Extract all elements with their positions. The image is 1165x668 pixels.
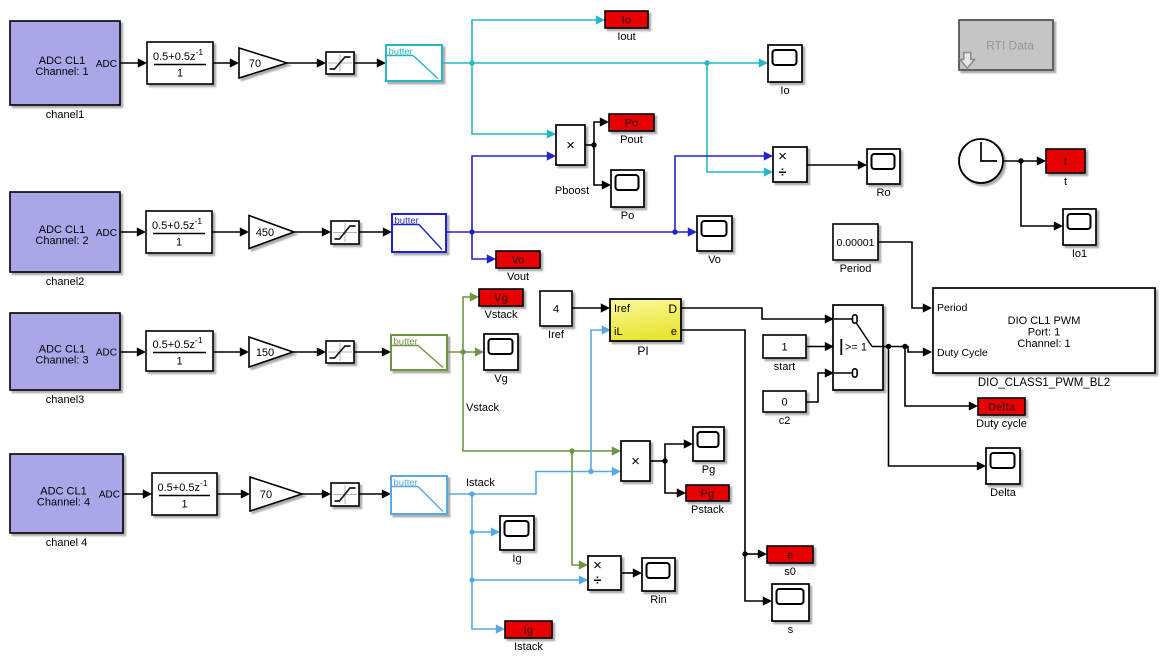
svg-text:chanel 4: chanel 4 [46,537,88,549]
constant Period [833,224,878,275]
svg-text:4: 4 [553,304,559,316]
wire chanel3 to filter3 [120,347,146,356]
svg-text:>= 1: >= 1 [845,342,867,354]
DIO CL1 PWM block [933,288,1155,389]
product block Pg [621,441,650,481]
switch block [833,305,883,390]
svg-text:Port: 1: Port: 1 [1028,327,1060,339]
svg-text:iL: iL [614,326,623,338]
wire Vstack down to Pg product [463,352,621,456]
wire switch out to DIO [883,347,932,357]
gain 150 row3 [249,337,293,367]
svg-text:Period: Period [937,302,968,314]
svg-text:Io1: Io1 [1072,248,1087,260]
svg-text:0: 0 [781,397,787,409]
wire saturation2 to butter2 [359,227,392,236]
wire divide Rin to scope Rin [621,568,642,577]
wire Istack to scope Ig [472,527,500,536]
svg-text:1: 1 [177,68,183,80]
svg-text:Period: Period [840,263,872,275]
svg-text:×: × [566,137,575,154]
wire gain3 to saturation3 [293,347,326,356]
wire Istack up to PI iL [591,325,611,471]
saturation block row2 [331,221,359,244]
svg-text:450: 450 [256,227,274,239]
wire start to switch [806,342,834,351]
svg-text:Vstack: Vstack [466,402,500,414]
svg-text:e: e [671,326,677,338]
wire Pg product out [650,460,665,462]
wire chanel1 to filter1 [120,58,147,67]
node Istack label [466,477,495,489]
svg-text:÷: ÷ [779,164,787,180]
node Pboost label [555,185,589,197]
wire Period to DIO [878,242,932,313]
svg-text:c2: c2 [779,415,791,427]
svg-text:s0: s0 [784,566,796,578]
wire divide Ro to scope Ro [807,160,867,169]
goto tag t [1046,149,1085,188]
svg-text:Istack: Istack [514,641,543,653]
clock block [959,139,1003,183]
svg-text:1: 1 [176,356,182,368]
svg-text:Duty cycle: Duty cycle [976,418,1027,430]
scope s [772,584,809,636]
svg-text:Channel: 2: Channel: 2 [35,235,88,247]
svg-text:Channel: 4: Channel: 4 [37,497,90,509]
ADC input block chanel1 [10,21,120,121]
svg-text:Ig: Ig [524,625,534,637]
wire Pboost to goto Po [594,117,609,145]
wire Pboost to scope Po [594,145,611,190]
junction Io B [704,60,709,65]
wire Vo to divide Ro in1 [675,151,773,232]
wire Io to goto Iout [472,15,605,63]
svg-text:ADC: ADC [99,490,120,501]
goto tag Po [609,114,654,146]
wire Pg to scope Pg [665,439,693,461]
constant c2 [763,391,806,427]
svg-text:Delta: Delta [988,402,1016,414]
wire gain1 to saturation1 [287,58,326,67]
wire gain4 to saturation4 [302,489,331,498]
svg-text:×: × [778,148,787,165]
wire Vstack to divide Rin in1 [572,451,588,570]
svg-text:DIO CL1 PWM: DIO CL1 PWM [1008,315,1081,327]
wire gain2 to saturation2 [294,227,331,236]
svg-text:Pstack: Pstack [691,504,725,516]
butterworth filter block row1 [386,45,442,81]
goto tag Pg [686,485,729,516]
wire switch to scope Delta [889,347,987,471]
wire chanel4 to filter4 [123,489,152,498]
wire Vstack to scope Vg [447,347,484,356]
butterworth filter block row4 [391,476,447,514]
svg-text:Pg: Pg [702,464,715,476]
svg-text:Iref: Iref [548,329,565,341]
scope Vo [697,216,732,266]
product block Pboost [556,125,585,165]
divide block Rin [588,556,621,590]
goto tag Vo [496,251,540,283]
ADC input block chanel3 [10,313,120,406]
wire chanel2 to filter2 [120,227,146,236]
divide block Ro [773,147,807,182]
wire clock to scope Io1 [1021,161,1063,231]
junction Pg out [662,458,667,463]
svg-text:Istack: Istack [466,477,495,489]
constant Iref [540,291,572,341]
ADC input block chanel 4 [10,454,123,549]
wire filter4 to gain4 [217,489,250,498]
svg-text:Po: Po [624,118,638,130]
scope Io [768,45,802,97]
gain 450 row2 [249,216,294,249]
junction Istack B [588,469,593,474]
wire Istack to divide Rin in2 [472,575,588,584]
svg-text:s: s [788,624,794,636]
wire Vo to goto Vout [472,232,496,264]
svg-text:Channel: 1: Channel: 1 [1017,338,1070,350]
scope Po [611,170,644,222]
junction Istack C [469,529,474,534]
svg-text:1: 1 [181,499,187,511]
scope Ig [500,516,534,565]
junction Vo A [469,229,474,234]
wire Istack main [447,467,621,494]
svg-text:Ig: Ig [512,553,521,565]
junction switch B [902,344,907,349]
svg-text:×: × [631,453,640,470]
wire filter1 to gain1 [213,58,239,67]
saturation block row3 [326,341,354,363]
wire filter3 to gain3 [213,347,249,356]
svg-text:Ro: Ro [876,187,890,199]
svg-text:0.00001: 0.00001 [837,237,875,249]
svg-text:Pg: Pg [700,488,714,500]
scope Ro [867,149,900,199]
svg-text:ADC: ADC [96,228,117,239]
svg-text:70: 70 [260,489,272,501]
junction Vo B [672,229,677,234]
svg-text:Vout: Vout [507,271,529,283]
svg-text:Pout: Pout [620,134,643,146]
wire saturation1 to butter1 [354,58,386,67]
junction clock [1018,158,1023,163]
wire Pboost out [585,144,594,146]
junction Vstack B [569,448,574,453]
wire clock to goto t [1003,156,1046,165]
svg-text:1: 1 [781,342,787,354]
junction switch A [886,344,891,349]
svg-text:t: t [1064,156,1068,168]
wire switch to goto Delta [905,347,978,411]
goto tag Ig [505,621,552,653]
svg-text:PI: PI [637,344,648,358]
discrete filter row4 [152,473,217,515]
scope Vg [484,334,518,385]
wire filter2 to gain2 [212,227,249,236]
wire saturation3 to butter3 [354,347,391,356]
RTI Data block [959,20,1053,70]
svg-text:Vo: Vo [708,254,721,266]
svg-text:÷: ÷ [594,572,602,588]
junction Istack D [469,577,474,582]
junction e [742,551,747,556]
wire Iref to PI [572,303,610,312]
saturation block row1 [326,52,354,74]
junction Io A [469,60,474,65]
wire Vo to Pboost in2 [472,151,556,232]
goto tag e [767,546,813,578]
wire saturation4 to butter4 [359,489,391,498]
svg-text:Vo: Vo [511,255,525,267]
wire PI D to switch [681,308,834,324]
svg-text:start: start [774,361,795,373]
wire Io signal main [442,58,768,67]
svg-text:D: D [668,302,677,316]
wire Io to divide Ro in2 [707,63,773,177]
svg-text:Rin: Rin [650,594,667,606]
wire Io to Pboost in1 [472,63,556,139]
butterworth filter block row3 [391,335,447,370]
goto tag Vg [479,289,523,321]
scope Io1 [1063,209,1096,260]
discrete filter row2 [146,211,212,253]
ADC input block chanel2 [10,192,120,288]
svg-text:chanel3: chanel3 [46,394,85,406]
svg-text:150: 150 [256,347,274,359]
gain 70 row4 [250,477,302,511]
svg-text:RTI Data: RTI Data [986,39,1034,53]
constant start [763,335,806,373]
junction Vstack A [460,349,465,354]
svg-text:ADC: ADC [96,59,117,70]
svg-text:Io: Io [780,85,789,97]
scope Rin [642,558,675,606]
junction Istack A [469,491,474,496]
svg-text:Channel: 3: Channel: 3 [35,355,88,367]
scope Delta [986,448,1020,499]
discrete filter row3 [146,331,213,371]
svg-text:Vstack: Vstack [484,309,518,321]
svg-text:Pboost: Pboost [555,185,589,197]
butterworth filter block row2 [392,214,446,252]
svg-text:Vg: Vg [494,373,507,385]
goto tag Delta [976,398,1027,430]
wire Pg to goto Pstack [665,461,686,498]
svg-text:Iref: Iref [614,303,631,315]
PI controller block [610,299,681,358]
svg-text:chanel2: chanel2 [46,276,85,288]
wire PI e output [681,330,772,606]
svg-text:Duty Cycle: Duty Cycle [937,347,988,359]
svg-text:Channel: 1: Channel: 1 [35,66,88,78]
wire Vstack to goto Vg [463,292,479,352]
svg-text:1: 1 [176,237,182,249]
junction Pboost out [591,142,596,147]
wire c2 to switch [806,368,834,402]
wire Istack down branch [472,494,505,634]
svg-text:Po: Po [621,210,634,222]
wire Vo signal main [446,227,697,236]
saturation block row4 [331,483,359,506]
svg-text:e: e [787,550,793,562]
discrete filter row1 [147,42,213,84]
svg-text:Vg: Vg [494,293,508,305]
svg-text:Io: Io [622,15,632,27]
svg-text:Iout: Iout [617,31,635,43]
scope Pg [693,427,724,476]
goto tag Io [605,11,648,43]
svg-text:Delta: Delta [990,487,1017,499]
svg-text:DIO_CLASS1_PWM_BL2: DIO_CLASS1_PWM_BL2 [978,377,1110,389]
svg-text:ADC: ADC [96,348,117,359]
wire e to goto s0 [745,549,767,558]
svg-text:t: t [1064,176,1067,188]
node Vstack label [466,402,500,414]
svg-text:chanel1: chanel1 [46,109,85,121]
svg-text:70: 70 [249,58,261,70]
gain 70 row1 [239,48,287,78]
